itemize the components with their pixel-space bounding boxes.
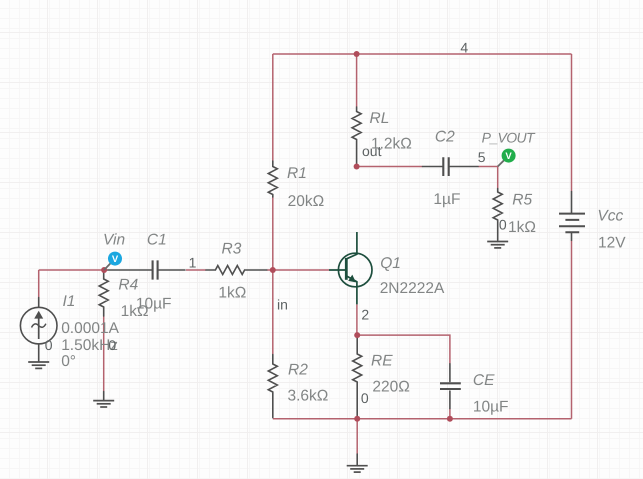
svg-text:0.0001A: 0.0001A <box>61 320 119 337</box>
svg-text:220Ω: 220Ω <box>372 379 409 396</box>
svg-text:R1: R1 <box>287 165 307 182</box>
svg-text:V: V <box>112 254 119 265</box>
svg-text:C1: C1 <box>147 232 167 249</box>
svg-text:Vcc: Vcc <box>597 208 623 225</box>
svg-text:12V: 12V <box>598 234 626 251</box>
svg-text:Vin: Vin <box>103 232 125 249</box>
svg-text:20kΩ: 20kΩ <box>288 193 325 210</box>
svg-text:CE: CE <box>473 372 495 389</box>
svg-text:I1: I1 <box>63 293 76 310</box>
svg-text:Q1: Q1 <box>380 255 401 272</box>
svg-text:R4: R4 <box>118 277 138 294</box>
svg-text:C2: C2 <box>435 129 455 146</box>
svg-text:V: V <box>505 151 512 162</box>
svg-text:2N2222A: 2N2222A <box>380 280 445 297</box>
svg-text:1: 1 <box>189 255 197 271</box>
svg-text:10µF: 10µF <box>473 398 509 415</box>
svg-text:0: 0 <box>45 337 53 353</box>
svg-text:0°: 0° <box>61 353 76 370</box>
svg-text:4: 4 <box>460 40 468 56</box>
svg-text:2: 2 <box>361 306 369 322</box>
svg-text:RE: RE <box>371 352 393 369</box>
svg-text:1kΩ: 1kΩ <box>508 219 536 236</box>
svg-text:3.6kΩ: 3.6kΩ <box>288 388 329 405</box>
svg-text:R5: R5 <box>512 191 532 208</box>
svg-text:10µF: 10µF <box>136 295 172 312</box>
svg-text:RL: RL <box>370 110 390 127</box>
svg-text:0: 0 <box>108 337 116 353</box>
svg-text:out: out <box>362 143 382 159</box>
svg-text:1kΩ: 1kΩ <box>218 284 246 301</box>
svg-text:R2: R2 <box>288 361 308 378</box>
svg-text:0: 0 <box>361 390 369 406</box>
svg-text:0: 0 <box>499 217 507 233</box>
svg-text:1µF: 1µF <box>433 191 460 208</box>
svg-text:P_VOUT: P_VOUT <box>482 129 536 145</box>
svg-text:5: 5 <box>478 149 486 165</box>
svg-text:in: in <box>277 297 288 313</box>
svg-text:R3: R3 <box>222 240 242 257</box>
